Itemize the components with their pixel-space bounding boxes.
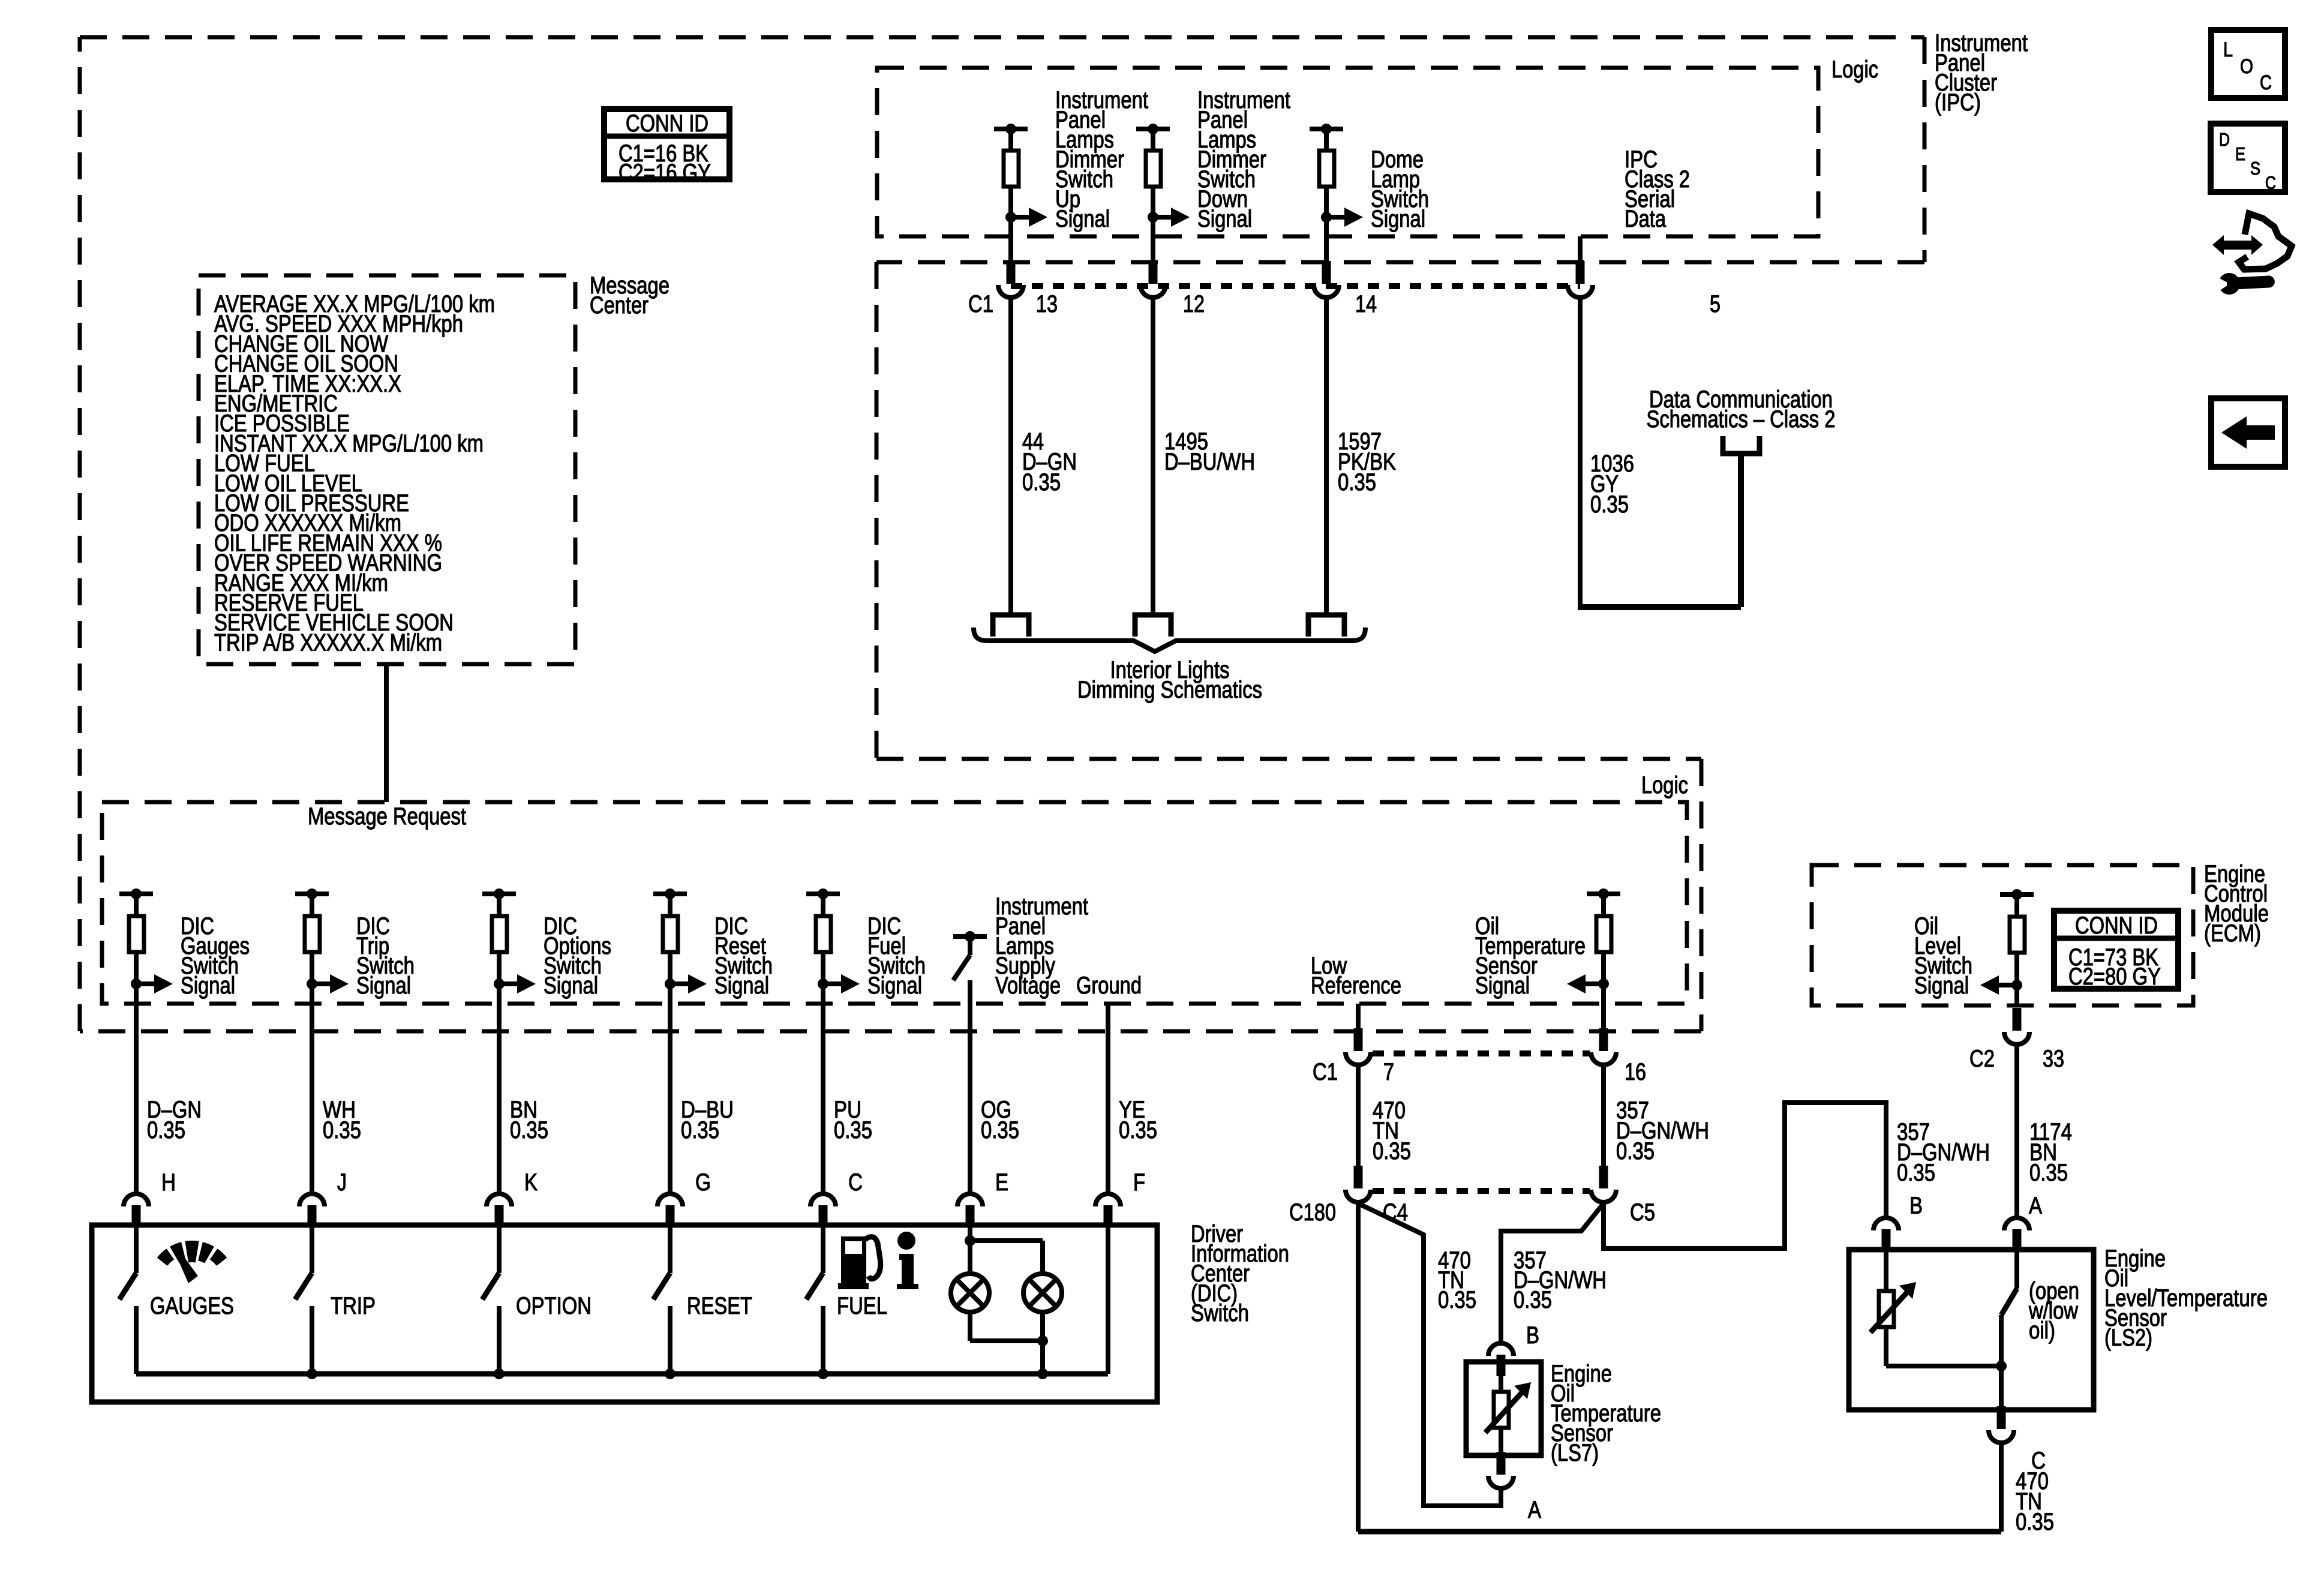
wire F leg ground — [1106, 1225, 1110, 1374]
svg-text:Signal: Signal — [181, 972, 235, 999]
icon LOC — [2211, 30, 2285, 98]
icon gauges (speedometer) — [157, 1248, 175, 1266]
switch TRIP lower lead — [310, 1306, 314, 1374]
connector C5 — [1599, 1166, 1608, 1188]
svg-text:0.35: 0.35 — [1897, 1160, 1935, 1186]
svg-text:Switch: Switch — [1191, 1300, 1249, 1326]
svg-text:G: G — [695, 1169, 711, 1196]
terminal interior lights — [1308, 615, 1344, 637]
svg-text:Voltage: Voltage — [995, 972, 1061, 999]
wire oil temp down — [1601, 984, 1606, 1041]
wire IPC serial data — [1578, 236, 1583, 261]
svg-text:C2=16 GY: C2=16 GY — [618, 160, 711, 186]
wire R1 dimmer up — [1008, 129, 1013, 150]
svg-text:E: E — [2235, 143, 2245, 164]
wire 357 D-GN/WH to LS7 pin B — [1501, 1203, 1604, 1342]
svg-text:Ground: Ground — [1076, 972, 1142, 999]
svg-text:C2=80 GY: C2=80 GY — [2068, 963, 2161, 990]
lamp L2 — [1023, 1274, 1062, 1312]
signal arrow DIC gauges switch signal — [131, 978, 142, 989]
svg-text:Signal: Signal — [1197, 206, 1252, 232]
wire DIC gauges switch signal down to connector — [134, 984, 139, 1193]
wire low reference return leg — [1356, 1203, 1361, 1532]
svg-text:H: H — [161, 1169, 176, 1196]
svg-text:(LS7): (LS7) — [1551, 1440, 1599, 1466]
node top bar DIC fuel switch signal — [806, 891, 840, 896]
wire message request — [384, 664, 389, 802]
junction lamp rail — [1037, 1335, 1048, 1346]
svg-text:0.35: 0.35 — [1616, 1138, 1655, 1164]
svg-text:(ECM): (ECM) — [2204, 920, 2261, 947]
svg-text:CONN ID: CONN ID — [626, 110, 708, 137]
connector C1 pin 16 — [1599, 1028, 1608, 1051]
svg-text:FUEL: FUEL — [837, 1293, 887, 1319]
resistor DIC gauges switch signal — [129, 916, 144, 952]
wire OG supply — [968, 980, 972, 1193]
wire 1036 GY serial — [1578, 299, 1583, 607]
svg-text:33: 33 — [2043, 1046, 2064, 1072]
svg-text:D: D — [2219, 129, 2230, 150]
connector pin E — [957, 1194, 983, 1206]
svg-text:0.35: 0.35 — [1022, 469, 1061, 496]
junction lamp feed — [965, 1235, 975, 1246]
connector LS2 pin A — [2004, 1218, 2029, 1230]
brace interior lights — [974, 628, 1365, 652]
icon driver information (i) — [897, 1232, 915, 1250]
thermistor LS7 — [1499, 1362, 1503, 1391]
junction bus — [307, 1368, 317, 1379]
switch RESET blade — [653, 1273, 670, 1299]
svg-text:Logic: Logic — [1641, 772, 1688, 798]
svg-text:0.35: 0.35 — [1119, 1117, 1157, 1143]
svg-text:C180: C180 — [1289, 1199, 1336, 1226]
resistor R1 dimmer up — [1004, 151, 1019, 187]
Engine Control Module (ECM) dashed box — [1812, 865, 2193, 1005]
svg-text:oil): oil) — [2029, 1317, 2055, 1344]
svg-text:Signal: Signal — [1914, 972, 1969, 999]
resistor oil temp input — [1596, 916, 1611, 952]
svg-text:16: 16 — [1625, 1059, 1646, 1085]
junction bus — [1037, 1368, 1048, 1379]
node top bar oil level switch signal — [2000, 892, 2034, 897]
Engine Oil Temperature Sensor (LS7) box — [1466, 1362, 1541, 1455]
node top bar oil temp sensor signal — [1587, 891, 1620, 896]
signal arrow DIC fuel switch signal — [818, 978, 828, 989]
connector pin K — [487, 1194, 512, 1206]
svg-text:CONN ID: CONN ID — [2075, 912, 2158, 939]
svg-text:B: B — [1526, 1322, 1539, 1349]
CONN ID table ECM C1=73 BK C2=80 GY — [2054, 911, 2178, 989]
connector C180 pin C4 — [1354, 1166, 1363, 1188]
resistor DIC trip switch signal — [305, 916, 320, 952]
wire 357 to C5 — [1601, 1066, 1606, 1175]
switch TRIP blade — [295, 1273, 312, 1299]
wire DIC trip switch signal — [310, 894, 314, 915]
terminal interior lights — [1135, 615, 1171, 637]
battery feed instrument panel lamps supply voltage — [953, 934, 987, 939]
switch OPTION upper lead — [497, 1225, 502, 1273]
connector C2 pin 33 — [2013, 1008, 2022, 1031]
node top bar R3 dome lamp — [1310, 127, 1343, 131]
destination bracket Data Communication — [1723, 436, 1759, 454]
svg-text:E: E — [995, 1169, 1008, 1196]
wire LS2 internal junction — [1886, 1364, 2001, 1368]
wire 1174 BN — [2014, 1046, 2019, 1217]
svg-text:12: 12 — [1183, 291, 1205, 317]
wire DIC reset switch signal — [668, 953, 672, 984]
resistor oil level input — [2010, 917, 2025, 953]
wire R2 dimmer down to connector — [1151, 217, 1155, 261]
stub LS7 A — [1497, 1455, 1506, 1464]
Instrument Panel Cluster (IPC) outer dashed boundary — [80, 35, 1924, 40]
connector LS2 pin C — [1997, 1406, 2006, 1429]
wire low reference — [1356, 1004, 1361, 1041]
svg-text:TRIP: TRIP — [331, 1293, 376, 1319]
wire DIC reset switch signal down to connector — [668, 984, 672, 1193]
svg-text:0.35: 0.35 — [1438, 1287, 1476, 1313]
wire DIC options switch signal — [497, 894, 502, 915]
connector C1 pin 5 — [1576, 261, 1585, 284]
resistor DIC fuel switch signal — [816, 916, 831, 952]
switch RESET upper lead — [668, 1225, 672, 1273]
wire DIC trip switch signal down to connector — [310, 984, 314, 1193]
wire DIC fuel switch signal — [821, 953, 825, 984]
wire DIC options switch signal — [497, 953, 502, 984]
junction bus — [818, 1368, 828, 1379]
connector LS7 pin A — [1497, 1452, 1506, 1475]
svg-text:C: C — [848, 1169, 863, 1196]
svg-text:C1: C1 — [1313, 1059, 1338, 1085]
Engine Oil Level/Temperature Sensor (LS2) box — [1849, 1250, 2094, 1410]
svg-text:A: A — [1528, 1497, 1541, 1523]
connector C1 pin 12 — [1149, 261, 1158, 284]
svg-text:0.35: 0.35 — [1590, 491, 1629, 518]
svg-text:A: A — [2029, 1193, 2042, 1219]
wire DIC fuel switch signal down to connector — [821, 984, 825, 1193]
resistor R3 dome lamp — [1319, 151, 1334, 187]
icon DESC — [2211, 124, 2285, 192]
svg-text:Message Request: Message Request — [308, 803, 466, 830]
svg-text:Signal: Signal — [1055, 206, 1110, 232]
wire 470 TN to C180 — [1356, 1066, 1361, 1175]
wire R3 dome lamp — [1324, 187, 1329, 217]
oil level switch LS2 — [2014, 1250, 2019, 1289]
svg-text:Signal: Signal — [1371, 206, 1425, 232]
junction bus — [665, 1368, 675, 1379]
svg-text:0.35: 0.35 — [1514, 1287, 1552, 1313]
svg-text:O: O — [2240, 55, 2253, 78]
signal arrow R1 dimmer up — [1005, 212, 1016, 223]
wire to interior lights — [1151, 299, 1155, 615]
connector line C1 (dotted) top row — [1011, 283, 1580, 289]
svg-text:K: K — [524, 1169, 538, 1196]
switch RESET lower lead — [668, 1306, 672, 1374]
wire YE ground — [1106, 1004, 1110, 1193]
connector C1 pin 13 — [1007, 261, 1016, 284]
wire DIC fuel switch signal — [821, 894, 825, 915]
connector C1 pin 14 — [1322, 261, 1331, 284]
wire oil level — [2014, 953, 2019, 985]
lamp circuit feed — [968, 1225, 972, 1241]
svg-text:0.35: 0.35 — [1338, 469, 1376, 496]
svg-text:J: J — [337, 1169, 347, 1196]
svg-text:Signal: Signal — [356, 972, 411, 999]
IPC top Logic dashed box — [877, 68, 1818, 236]
svg-text:0.35: 0.35 — [834, 1117, 872, 1143]
svg-text:Signal: Signal — [714, 972, 769, 999]
wire R2 dimmer down — [1151, 129, 1155, 150]
connector pin H — [124, 1194, 149, 1206]
svg-text:0.35: 0.35 — [147, 1117, 185, 1143]
wire DIC ground bus — [136, 1371, 1108, 1377]
wire oil level to connector — [2014, 985, 2019, 1005]
svg-text:Signal: Signal — [544, 972, 598, 999]
icon fuel pump — [841, 1236, 866, 1285]
svg-text:Schematics – Class 2: Schematics – Class 2 — [1647, 406, 1836, 433]
wire DIC gauges switch signal — [134, 894, 139, 915]
svg-text:C: C — [2260, 71, 2272, 94]
switch FUEL blade — [806, 1273, 823, 1299]
switch OPTION blade — [482, 1273, 499, 1299]
junction bus — [494, 1368, 505, 1379]
svg-text:Logic: Logic — [1831, 56, 1878, 83]
node top bar DIC trip switch signal — [295, 891, 329, 896]
svg-text:B: B — [1909, 1193, 1923, 1219]
svg-text:C5: C5 — [1630, 1199, 1655, 1226]
connector pin F — [1095, 1194, 1121, 1206]
svg-text:Signal: Signal — [1475, 972, 1530, 999]
icon connector-repair (arrows + wrench) — [2239, 214, 2292, 269]
svg-text:C1: C1 — [968, 291, 993, 317]
svg-text:C: C — [2265, 172, 2276, 193]
svg-text:Center: Center — [590, 292, 648, 319]
node top bar DIC gauges switch signal — [119, 891, 153, 896]
connector C1 pin 7 — [1354, 1028, 1363, 1051]
svg-text:Reference: Reference — [1311, 972, 1401, 999]
wire oil level — [2014, 894, 2019, 916]
wire R3 dome lamp — [1324, 129, 1329, 150]
wire oil temp — [1601, 953, 1606, 984]
wire LS2 to pin C — [1999, 1366, 2004, 1410]
switch FUEL upper lead — [821, 1225, 825, 1273]
node top bar R2 dimmer down — [1136, 127, 1170, 131]
wire R1 dimmer up to connector — [1008, 217, 1013, 261]
wire 357 D-GN/WH to LS2 pin B — [1604, 1103, 1886, 1248]
svg-text:(IPC): (IPC) — [1935, 89, 1981, 116]
Message Center dashed box — [199, 275, 575, 664]
thermistor LS2 — [1884, 1250, 1888, 1291]
wire to interior lights — [1324, 299, 1329, 615]
svg-text:0.35: 0.35 — [681, 1117, 719, 1143]
svg-text:5: 5 — [1710, 291, 1721, 317]
svg-text:13: 13 — [1036, 291, 1058, 317]
svg-text:0.35: 0.35 — [981, 1117, 1019, 1143]
signal arrow R3 dome lamp — [1321, 212, 1332, 223]
wire R3 dome lamp to connector — [1324, 217, 1329, 261]
signal arrow oil level switch signal — [2011, 980, 2022, 990]
connector pin J — [299, 1194, 325, 1206]
signal arrow DIC options switch signal — [494, 978, 505, 989]
wire to interior lights — [1008, 299, 1013, 615]
svg-text:0.35: 0.35 — [323, 1117, 361, 1143]
wire low reference bottom rail — [1358, 1529, 2001, 1535]
svg-text:0.35: 0.35 — [1373, 1138, 1411, 1164]
signal arrow R2 dimmer down — [1148, 212, 1158, 223]
switch FUEL lower lead — [821, 1306, 825, 1374]
signal arrow oil temperature sensor signal — [1598, 978, 1609, 989]
signal arrow DIC reset switch signal — [665, 978, 675, 989]
wire lamp L1 return — [968, 1312, 972, 1341]
svg-text:F: F — [1133, 1169, 1145, 1196]
wire LS7 A to return — [1499, 1490, 1503, 1506]
svg-text:7: 7 — [1383, 1059, 1394, 1085]
Driver Information Center (DIC) Switch box — [92, 1225, 1157, 1402]
svg-text:14: 14 — [1355, 291, 1377, 317]
CONN ID table IPC C1=16 BK C2=16 GY — [604, 109, 729, 179]
wire DIC reset switch signal — [668, 894, 672, 915]
connector dotted line C4-C5 — [1373, 1188, 1590, 1194]
switch TRIP upper lead — [310, 1225, 314, 1273]
wire oil temp — [1601, 894, 1606, 915]
icon back arrow — [2211, 398, 2285, 467]
svg-text:S: S — [2250, 158, 2260, 179]
svg-text:(LS2): (LS2) — [2104, 1325, 2152, 1351]
IPC bottom Logic dashed box — [102, 802, 1687, 1004]
svg-text:Dimming Schematics: Dimming Schematics — [1077, 677, 1262, 703]
node top bar DIC reset switch signal — [653, 891, 687, 896]
connector LS7 pin B — [1488, 1343, 1514, 1356]
terminal interior lights — [993, 615, 1029, 637]
wire lamp L2 return — [1040, 1312, 1045, 1341]
wire DIC gauges switch signal — [134, 953, 139, 984]
connector pin C — [810, 1194, 836, 1206]
switch GAUGES lower lead — [134, 1306, 139, 1374]
signal arrow DIC trip switch signal — [307, 978, 317, 989]
junction LS2 — [1996, 1361, 2007, 1371]
svg-text:GAUGES: GAUGES — [150, 1293, 234, 1319]
svg-text:0.35: 0.35 — [2029, 1160, 2068, 1186]
connector dotted line pins 7-16 — [1373, 1050, 1590, 1056]
svg-text:C2: C2 — [1969, 1046, 1995, 1072]
lamp L1 — [951, 1274, 989, 1312]
switch GAUGES upper lead — [134, 1225, 139, 1273]
svg-text:RESET: RESET — [687, 1293, 752, 1319]
svg-text:D–BU/WH: D–BU/WH — [1164, 449, 1255, 475]
resistor DIC reset switch signal — [663, 916, 678, 952]
svg-text:OPTION: OPTION — [516, 1293, 591, 1319]
switch GAUGES blade — [119, 1273, 136, 1299]
svg-text:TRIP A/B XXXXX.X Mi/km: TRIP A/B XXXXX.X Mi/km — [214, 629, 442, 656]
connector pin G — [657, 1194, 683, 1206]
wire lamp rail to bus — [1040, 1341, 1045, 1374]
wire DIC options switch signal down to connector — [497, 984, 502, 1193]
svg-text:Data: Data — [1625, 206, 1667, 232]
wire 470 TN return — [1999, 1444, 2004, 1532]
wire R1 dimmer up — [1008, 187, 1013, 217]
switch OPTION lower lead — [497, 1306, 502, 1374]
svg-text:Signal: Signal — [867, 972, 922, 999]
connector LS2 pin B — [1873, 1218, 1899, 1230]
stub LS2 C — [1997, 1410, 2006, 1418]
wire DIC trip switch signal — [310, 953, 314, 984]
svg-text:L: L — [2223, 38, 2233, 61]
svg-text:0.35: 0.35 — [510, 1117, 548, 1143]
node top bar DIC options switch signal — [482, 891, 516, 896]
wire lamp return rail — [970, 1338, 1043, 1343]
node top bar R1 dimmer up — [994, 127, 1028, 131]
resistor R2 dimmer down — [1146, 151, 1161, 187]
wire R2 dimmer down — [1151, 187, 1155, 217]
wire 470 TN to LS7 pin A — [1358, 1203, 1501, 1506]
resistor DIC options switch signal — [492, 916, 507, 952]
svg-text:0.35: 0.35 — [2016, 1509, 2054, 1535]
